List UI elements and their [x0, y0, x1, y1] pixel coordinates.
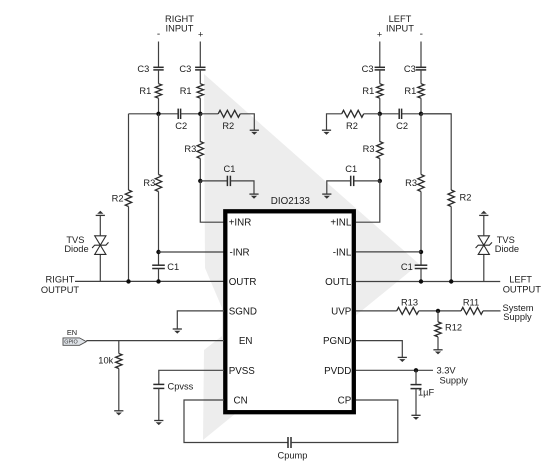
label LEFT OUTPUT	[503, 274, 542, 294]
label EN	[67, 328, 77, 337]
wire OUTL row	[356, 281, 500, 283]
resistor R3 (left +)	[363, 142, 383, 159]
wire	[420, 70, 422, 84]
ground	[411, 415, 420, 420]
resistor R3 (left -)	[405, 175, 424, 192]
wire	[420, 192, 422, 266]
wire CN	[184, 400, 288, 443]
svg-text:+INL: +INL	[330, 218, 352, 229]
svg-text:Diode: Diode	[64, 244, 88, 254]
wire	[420, 269, 422, 282]
wire	[118, 369, 120, 411]
wire	[200, 113, 218, 115]
wire PVDD	[356, 369, 433, 371]
wire	[199, 70, 201, 84]
svg-text:R13: R13	[401, 298, 418, 308]
svg-text:C3: C3	[137, 64, 149, 74]
capacitor C1 (left feedback)	[401, 262, 427, 272]
capacitor C1 (right feedback)	[152, 262, 179, 272]
node	[156, 279, 160, 283]
capacitor C2 (left)	[396, 109, 408, 131]
svg-text:EN: EN	[239, 336, 253, 347]
wire	[450, 207, 452, 282]
node (left - junction)	[419, 112, 423, 116]
svg-text:Supply: Supply	[503, 312, 532, 322]
wire feedback branch	[128, 114, 130, 190]
wire	[354, 180, 380, 182]
wire	[199, 98, 201, 114]
wire R12 branch	[437, 311, 439, 322]
svg-text:R11: R11	[463, 298, 479, 308]
wire	[99, 215, 101, 236]
svg-text:OUTPUT: OUTPUT	[503, 284, 542, 294]
svg-text:INPUT: INPUT	[166, 24, 194, 34]
resistor R1 (right -)	[139, 84, 161, 98]
wire TVS branch	[483, 254, 485, 281]
watermark logo background	[203, 74, 419, 440]
svg-text:C2: C2	[396, 121, 408, 131]
svg-text:C1: C1	[167, 262, 179, 272]
node (right - junction)	[156, 112, 160, 116]
svg-text:1µF: 1µF	[418, 387, 435, 397]
svg-text:PVDD: PVDD	[324, 366, 351, 377]
label RIGHT INPUT	[165, 14, 194, 34]
capacitor C3 (right +)	[179, 64, 205, 74]
resistor R1 (left -)	[404, 84, 424, 98]
wire to -INR	[159, 251, 225, 253]
svg-text:+: +	[198, 30, 203, 40]
capacitor C2 (right)	[175, 109, 187, 131]
svg-text:R2: R2	[460, 193, 472, 203]
node	[419, 279, 423, 283]
svg-text:R3: R3	[363, 144, 375, 154]
wire	[128, 207, 130, 282]
node (right + junction)	[198, 112, 202, 116]
terminal + (right input)	[198, 30, 203, 40]
resistor R1 (left +)	[362, 84, 383, 98]
wire	[158, 269, 160, 282]
ground	[250, 130, 259, 135]
capacitor C3 (right -)	[137, 64, 163, 74]
ground	[322, 194, 331, 199]
wire	[230, 181, 254, 194]
svg-text:CN: CN	[234, 396, 248, 407]
TVS diode (right)	[64, 235, 108, 255]
wire	[419, 310, 461, 312]
wire	[158, 70, 160, 84]
resistor R3 (right +)	[184, 142, 203, 159]
capacitor C3 (left +)	[362, 64, 385, 74]
capacitor C1 (left, to gnd)	[345, 164, 357, 186]
wire	[327, 181, 351, 194]
svg-text:R1: R1	[362, 86, 374, 96]
wire SGND	[177, 311, 224, 329]
ground (inverted)	[96, 211, 105, 216]
node (left + junction)	[378, 112, 382, 116]
wire	[364, 113, 380, 115]
wire	[483, 310, 501, 312]
resistor R1 (right +)	[180, 84, 204, 98]
node	[414, 368, 418, 372]
wire	[158, 98, 160, 114]
capacitor C3 (left -)	[404, 64, 426, 74]
svg-text:10k: 10k	[98, 356, 113, 366]
wire -IN stub	[158, 42, 160, 68]
svg-text:C1: C1	[345, 164, 357, 174]
svg-text:-INR: -INR	[230, 247, 250, 258]
ground	[154, 421, 163, 426]
svg-text:-INL: -INL	[333, 247, 352, 258]
svg-text:R1: R1	[180, 86, 192, 96]
wire 10k branch	[118, 341, 120, 354]
wire	[379, 159, 381, 181]
wire junction row	[402, 113, 452, 115]
resistor R12	[435, 322, 462, 337]
node	[126, 279, 130, 283]
svg-text:3.3V: 3.3V	[437, 365, 457, 375]
wire EN	[86, 340, 224, 342]
node	[449, 279, 453, 283]
capacitor Cpvss	[153, 382, 193, 392]
IC pin labels	[229, 218, 352, 407]
wire	[158, 192, 160, 266]
wire to -INL	[356, 251, 421, 253]
svg-text:Diode: Diode	[495, 244, 519, 254]
svg-text:RIGHT: RIGHT	[165, 14, 194, 24]
resistor R2 (left, to gnd)	[342, 110, 364, 131]
svg-text:-: -	[157, 29, 160, 40]
wire	[240, 114, 254, 130]
terminal - (right input)	[157, 29, 160, 40]
svg-text:C3: C3	[179, 64, 191, 74]
resistor 10k	[98, 354, 122, 369]
svg-text:INPUT: INPUT	[386, 24, 414, 34]
wire	[437, 337, 439, 350]
node	[156, 250, 160, 254]
svg-text:C1: C1	[224, 164, 236, 174]
svg-text:R2: R2	[346, 121, 358, 131]
wire	[158, 114, 160, 175]
capacitor 1uF	[411, 385, 435, 398]
node	[436, 309, 440, 313]
wire	[199, 114, 201, 142]
label RIGHT OUTPUT	[41, 275, 80, 296]
wire	[379, 70, 381, 84]
wire	[200, 180, 227, 182]
svg-text:GPIO: GPIO	[64, 340, 77, 346]
label 3.3V Supply	[437, 365, 469, 385]
resistor R11	[461, 298, 483, 315]
wire	[420, 114, 422, 175]
svg-text:CP: CP	[338, 396, 352, 407]
wire TVS branch	[99, 254, 101, 281]
svg-text:Cpvss: Cpvss	[168, 382, 194, 392]
svg-text:OUTPUT: OUTPUT	[41, 285, 80, 295]
wire	[379, 98, 381, 114]
wire	[415, 370, 417, 384]
ground	[433, 350, 442, 355]
wire junction row	[129, 113, 179, 115]
resistor R13	[397, 298, 419, 315]
svg-text:R2: R2	[112, 194, 124, 204]
wire +IN stub	[199, 42, 201, 68]
svg-text:C2: C2	[175, 121, 187, 131]
ground (PGND)	[398, 357, 407, 362]
svg-text:+INR: +INR	[229, 218, 252, 229]
wire	[483, 215, 485, 236]
svg-text:R1: R1	[404, 86, 416, 96]
node	[198, 179, 202, 183]
wire UVP	[356, 310, 397, 312]
svg-text:R3: R3	[405, 178, 417, 188]
node	[419, 250, 423, 254]
wire OUTR row	[75, 280, 224, 282]
terminal - (left input)	[420, 29, 423, 40]
TVS diode (left)	[476, 235, 519, 255]
svg-text:R3: R3	[184, 144, 196, 154]
wire	[199, 159, 201, 181]
wire feedback branch	[421, 114, 451, 190]
svg-text:OUTL: OUTL	[325, 277, 352, 288]
wire to +INL	[356, 181, 380, 222]
resistor R3 (right -)	[143, 175, 161, 192]
svg-text:-: -	[420, 29, 423, 40]
ground (SGND)	[173, 329, 182, 334]
label System Supply	[503, 303, 534, 322]
ground	[322, 130, 331, 135]
wire	[420, 98, 422, 114]
svg-text:EN: EN	[67, 328, 77, 337]
svg-text:SGND: SGND	[229, 306, 257, 317]
svg-text:C3: C3	[362, 64, 374, 74]
svg-text:C3: C3	[404, 64, 416, 74]
svg-text:+: +	[377, 30, 382, 40]
svg-text:LEFT: LEFT	[389, 14, 412, 24]
svg-text:PGND: PGND	[323, 336, 351, 347]
terminal + (left input)	[377, 30, 382, 40]
svg-text:DIO2133: DIO2133	[271, 196, 311, 207]
svg-text:OUTR: OUTR	[229, 277, 257, 288]
wire to +INR	[200, 181, 224, 222]
op-amp IC U1 DIO2133 box	[225, 196, 353, 412]
ground	[249, 194, 258, 199]
svg-text:R12: R12	[445, 323, 462, 333]
svg-text:R1: R1	[139, 86, 151, 96]
wire PGND	[356, 341, 402, 358]
svg-text:R3: R3	[143, 178, 155, 188]
wire	[181, 113, 201, 115]
svg-text:C1: C1	[401, 262, 413, 272]
ground	[114, 411, 123, 416]
wire CP loop	[291, 400, 398, 443]
label LEFT INPUT	[386, 14, 414, 34]
wire +IN stub	[379, 42, 381, 68]
resistor R2 (right feedback)	[112, 190, 132, 207]
wire -IN stub	[420, 42, 422, 68]
wire	[379, 114, 381, 142]
GPIO input flag	[63, 338, 86, 346]
capacitor Cpump	[278, 437, 308, 461]
resistor R2 (right, to gnd)	[218, 110, 240, 131]
wire PVSS	[159, 370, 224, 384]
capacitor C1 (right, to gnd)	[224, 164, 236, 186]
svg-text:RIGHT: RIGHT	[46, 275, 75, 285]
node	[378, 179, 382, 183]
svg-text:LEFT: LEFT	[509, 274, 532, 284]
svg-text:UVP: UVP	[331, 306, 352, 317]
svg-text:R2: R2	[222, 121, 234, 131]
wire	[380, 113, 399, 115]
resistor R2 (left feedback)	[448, 190, 471, 207]
wire	[415, 389, 417, 416]
svg-text:Cpump: Cpump	[278, 451, 308, 461]
svg-text:PVSS: PVSS	[229, 366, 256, 377]
wire	[158, 388, 160, 420]
svg-text:Supply: Supply	[440, 376, 469, 386]
ground (inverted)	[479, 211, 488, 216]
wire	[327, 114, 342, 130]
